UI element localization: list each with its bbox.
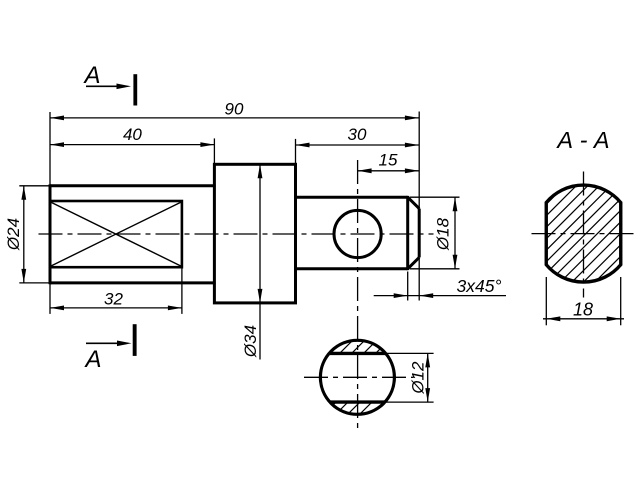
svg-text:32: 32	[104, 290, 123, 309]
dimension 32	[50, 290, 182, 311]
cutting plane mark bottom: bar	[133, 324, 137, 356]
bottom view horizontal centerline	[304, 376, 414, 378]
section A-A outline	[546, 185, 621, 282]
hole edge chord bottom	[330, 400, 385, 403]
svg-text:Ø34: Ø34	[241, 325, 260, 358]
flat diagonal 2	[51, 202, 181, 266]
svg-text:90: 90	[225, 99, 244, 118]
svg-text:Ø12: Ø12	[409, 361, 428, 395]
main shaft centerline	[39, 233, 434, 235]
svg-text:A: A	[83, 346, 101, 373]
bottom view circle (section 3 end view)	[320, 340, 394, 414]
cross hole circle in section 3	[334, 210, 381, 257]
svg-text:Ø24: Ø24	[4, 218, 23, 251]
extension line x=295.5 for dim 30	[295, 139, 297, 164]
svg-text:40: 40	[123, 125, 142, 144]
section A-A vertical centerline	[583, 172, 585, 298]
flat area rectangle on section 1	[50, 201, 182, 267]
dimension 40	[50, 125, 214, 147]
shaft section 2 outline (middle, dia 34)	[214, 164, 295, 303]
dimension chamfer 3x45	[374, 276, 506, 298]
extension line left x=50 bottom	[49, 284, 51, 314]
dimension 30	[296, 125, 419, 147]
extension line x=215 for dim 40	[213, 138, 215, 163]
dimension 15	[358, 151, 419, 174]
svg-text:18: 18	[573, 300, 593, 320]
cutting plane mark top: arrow	[86, 84, 131, 90]
svg-text:3x45°: 3x45°	[457, 276, 502, 296]
svg-text:A - A: A - A	[555, 127, 609, 153]
dimension 90	[50, 99, 419, 120]
dimension 18 across flats	[543, 277, 624, 325]
svg-text:15: 15	[379, 151, 398, 170]
hole vertical centerline	[357, 160, 359, 429]
cutting plane mark top: bar	[133, 74, 137, 105]
svg-text:30: 30	[348, 125, 367, 144]
svg-text:Ø18: Ø18	[434, 217, 453, 251]
flat diagonal 1	[51, 202, 181, 266]
extension line x=181.9 for dim 32	[181, 268, 183, 314]
dimension dia 12	[384, 353, 434, 402]
extension line left x=50 top	[49, 112, 51, 185]
cutting plane mark bottom: arrow	[86, 341, 132, 347]
section A-A horizontal centerline	[532, 233, 636, 235]
hole edge chord top	[329, 352, 386, 355]
shaft section 1 outline (left, with flats)	[50, 184, 216, 284]
shaft section 3 outline (right, dia 18)	[295, 196, 419, 270]
dimension dia 24	[4, 186, 49, 283]
svg-text:A: A	[82, 62, 100, 89]
extension line x=407.7 for chamfer dim	[407, 272, 409, 301]
dimension dia 18	[410, 197, 460, 269]
dimension dia 34	[241, 164, 262, 359]
extension line right end x=419	[418, 112, 420, 301]
